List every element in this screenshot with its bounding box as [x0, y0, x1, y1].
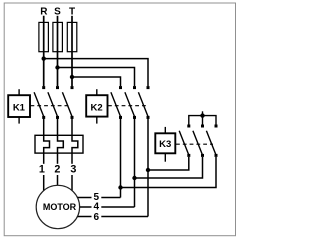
wire K1 pole2 to overload heater to motor terminal 2 — [58, 119, 64, 186]
svg-text:K2: K2 — [91, 102, 103, 113]
motor terminal 2 label — [52, 164, 62, 176]
K2 contact pole 3 — [138, 86, 149, 119]
wire K2 pole 2 down to motor line 4 — [134, 119, 136, 208]
motor terminal 1 label — [39, 164, 47, 176]
wire K2 pole 1 down to motor line 5 — [120, 119, 122, 198]
wire K1 pole1 to overload heater to motor terminal 1 — [44, 119, 50, 191]
svg-text:K1: K1 — [13, 102, 26, 113]
K3 contact pole 1 — [179, 125, 190, 157]
wire T bus to K2 contact 1 — [72, 77, 121, 86]
motor terminal 3 label — [68, 164, 78, 176]
svg-text:T: T — [69, 6, 75, 17]
star point stub — [202, 111, 204, 125]
K1 contact pole 2 — [48, 86, 59, 119]
border frame — [4, 3, 235, 236]
svg-text:S: S — [54, 6, 61, 17]
contactor K3 coil box — [155, 127, 175, 162]
svg-text:3: 3 — [70, 164, 76, 176]
wire K2 pole 3 down to motor line 6 — [147, 119, 149, 217]
wire junction4 to K3 pole 2 — [135, 157, 203, 178]
motor terminal 5 label — [92, 192, 102, 203]
wire motor terminal 4 to K2 pole 2 riser — [80, 206, 135, 208]
wire R feed through fuse down to K1 contact 1 — [43, 16, 45, 86]
fuse F2 — [53, 22, 63, 51]
K2 contact pole 1 — [111, 86, 122, 119]
junction T — [70, 75, 74, 79]
junction motor6/K3 — [146, 168, 150, 172]
star point bar — [189, 116, 216, 125]
K3 contact pole 2 — [193, 125, 204, 157]
K3 linkage dashed line — [176, 143, 213, 145]
wire S feed through fuse down to K1 contact 2 — [57, 16, 59, 86]
K2 linkage dashed line — [108, 105, 146, 107]
overload relay box — [35, 135, 83, 153]
svg-text:R: R — [40, 6, 48, 17]
svg-text:2: 2 — [54, 164, 60, 176]
contactor K1 coil box — [8, 89, 30, 123]
K3 contact pole 3 — [206, 125, 217, 157]
star point junction — [200, 113, 204, 117]
wire motor terminal 5 to K2 pole 1 riser — [78, 197, 121, 199]
K1 contact pole 1 — [34, 86, 45, 119]
motor terminal 6 label — [92, 212, 102, 223]
svg-text:6: 6 — [94, 212, 100, 223]
motor M1 — [36, 185, 79, 228]
junction motor4/K3 — [132, 176, 136, 180]
wire motor terminal 6 to K2 pole 3 riser — [78, 216, 149, 218]
svg-text:K3: K3 — [159, 139, 171, 150]
svg-text:1: 1 — [39, 164, 45, 176]
wire R bus to K2 contact 3 — [44, 59, 148, 87]
K1 contact pole 3 — [62, 86, 73, 119]
fuse F1 — [39, 22, 49, 51]
motor terminal 4 label — [92, 202, 102, 213]
svg-text:MOTOR: MOTOR — [43, 202, 77, 212]
wire junction6 to K3 pole 1 — [148, 157, 189, 170]
junction R — [42, 56, 46, 60]
wire K1 pole3 to overload heater to motor terminal 3 — [72, 119, 78, 191]
junction S — [55, 65, 59, 69]
fuse F3 — [67, 22, 77, 51]
K2 contact pole 2 — [125, 86, 136, 119]
wire junction5 to K3 pole 3 — [121, 157, 217, 188]
wire T feed through fuse down to K1 contact 3 — [71, 16, 73, 86]
junction motor5/K3 — [118, 185, 122, 189]
contactor K2 coil box — [86, 89, 107, 123]
wire S bus to K2 contact 2 — [58, 68, 135, 87]
K1 linkage dashed line — [31, 105, 70, 107]
